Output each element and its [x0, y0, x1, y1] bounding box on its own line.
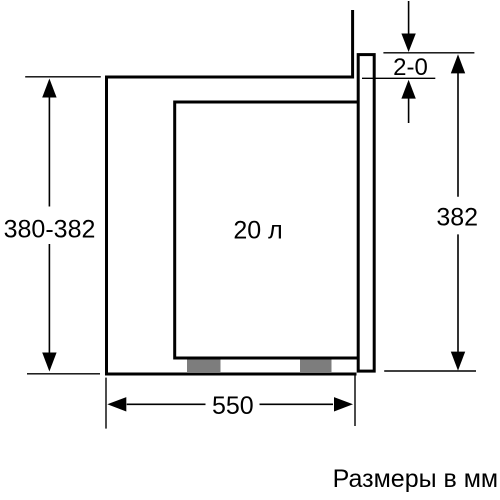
svg-text:550: 550	[212, 392, 254, 420]
svg-text:2-0: 2-0	[393, 54, 428, 81]
svg-text:20 л: 20 л	[233, 217, 282, 245]
svg-text:380-382: 380-382	[4, 215, 96, 243]
svg-text:Размеры в мм: Размеры в мм	[333, 465, 498, 493]
svg-text:382: 382	[436, 204, 478, 232]
